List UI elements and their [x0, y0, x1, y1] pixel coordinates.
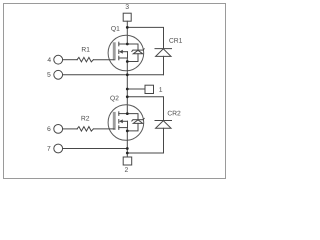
designator R1: [82, 47, 90, 52]
designator CR1: [169, 38, 182, 43]
designator Q1: [111, 26, 119, 32]
transistor Q1 body circle: [108, 35, 144, 71]
terminal 6 circle: [54, 124, 63, 133]
pin label 4: [48, 57, 51, 62]
wire node T1 to terminal 1 pad: [127, 88, 145, 90]
terminal 2 pad: [123, 157, 132, 165]
terminal 7 circle: [54, 144, 63, 153]
wire node to terminal 2 pad: [126, 153, 128, 157]
designator R2: [82, 116, 90, 121]
junction node below terminal 3: [126, 26, 129, 29]
terminal 3 pad: [123, 13, 131, 21]
Q2 drain stub: [119, 113, 128, 115]
pin label 2: [125, 167, 128, 172]
Q2 channel segments: [118, 112, 120, 116]
Q1 gate electrode bar: [113, 42, 116, 60]
terminal 5 circle: [54, 70, 63, 79]
Q2 source stub: [119, 127, 128, 129]
wire CR1 anode down: [163, 56, 165, 74]
wire CR2 anode down: [163, 128, 165, 153]
wire node S2 to CR2 return node: [126, 149, 128, 154]
Q1 drain stub: [119, 43, 128, 45]
junction node S1: [126, 73, 129, 76]
Q2 body diode branch: [127, 114, 138, 120]
junction CR2 return: [126, 152, 129, 155]
pin label 6: [47, 126, 50, 131]
junction Q2 drain: [126, 112, 129, 115]
Q2 gate electrode bar: [113, 112, 116, 130]
terminal 4 circle: [54, 55, 63, 64]
pin label 1: [159, 87, 162, 92]
designator Q2: [110, 96, 118, 102]
wire terminal4 to R1: [63, 59, 78, 61]
transistor Q2 body circle: [108, 105, 144, 141]
resistor R2: [77, 127, 93, 132]
wire R1 to Q1 gate: [93, 59, 114, 61]
wire Q2 source down to node S2: [126, 131, 128, 149]
junction node T1: [126, 88, 129, 91]
wire terminal7 to node S2: [63, 148, 128, 150]
wire CR2 anode return: [127, 152, 163, 154]
wire node T1 to node D2: [126, 89, 128, 97]
resistor R1: [77, 57, 93, 62]
wire node D1 down to Q1 drain: [126, 27, 128, 44]
wire Q1 source down to node S1: [126, 62, 128, 75]
junction Q1 drain: [126, 43, 129, 46]
wire Q2 source stub to body-diode node: [126, 128, 128, 131]
diode CR2 symbol: [155, 120, 172, 122]
Q1 body diode branch: [127, 44, 138, 50]
junction node D2: [126, 95, 129, 98]
pin label 7: [47, 146, 50, 151]
Q1 source stub: [119, 57, 128, 59]
wire node D2 down to Q2 drain: [126, 97, 128, 114]
wire terminal6 to R2: [63, 128, 78, 130]
Q2 body arrow: [119, 119, 123, 123]
wire node S1 to CR1 anode return: [127, 74, 163, 76]
wire terminal5 to node S1: [63, 74, 128, 76]
wire node D2 to CR2 cathode: [127, 97, 163, 121]
pin label 5: [47, 72, 50, 77]
designator CR2: [168, 111, 181, 116]
wire node S1 to node T1: [126, 75, 128, 89]
wire Q1 source stub to body-diode node: [126, 58, 128, 62]
terminal 1 pad: [145, 85, 154, 93]
diode CR1 branch wires: [127, 27, 163, 48]
Q1 channel segments: [118, 42, 120, 46]
wire R2 to Q2 gate: [93, 128, 114, 130]
wire terminal3 to node D1: [126, 21, 128, 27]
Q1 body arrow: [119, 50, 123, 54]
pin label 3: [126, 4, 129, 9]
diode CR1 symbol: [155, 48, 172, 50]
junction Q2 source / body diode: [126, 130, 129, 133]
junction Q1 source / body diode: [126, 60, 129, 63]
junction node S2: [126, 147, 129, 150]
